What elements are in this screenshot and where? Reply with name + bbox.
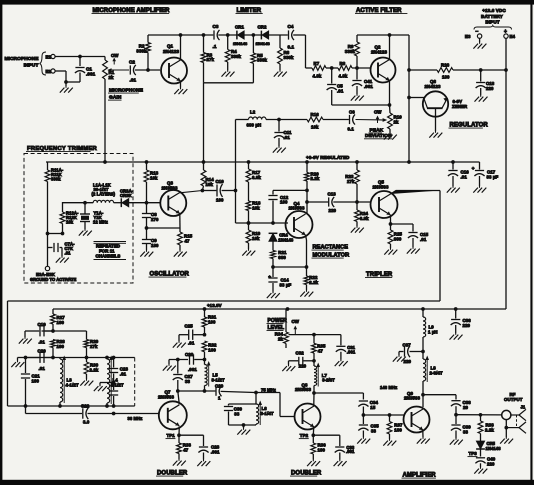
wire Q1 emitter to ground: [174, 81, 187, 94]
svg-text:100: 100: [57, 320, 65, 325]
wire J1 ground: [500, 420, 513, 444]
node C41: [355, 66, 359, 70]
capacitor C23 .01: [109, 358, 129, 383]
svg-text:33: 33: [371, 428, 377, 433]
capacitor C20 .01: [18, 348, 54, 371]
wire Q3 collector: [180, 191, 203, 193]
svg-text:OUTPUT: OUTPUT: [504, 397, 523, 402]
svg-text:36 MHz: 36 MHz: [128, 416, 143, 421]
svg-text:2N4123: 2N4123: [163, 49, 179, 54]
ground C28: [197, 460, 210, 467]
terminal E1: [46, 54, 56, 59]
svg-text:33 µF: 33 µF: [487, 175, 499, 180]
svg-text:TP1: TP1: [167, 433, 176, 438]
svg-text:27k: 27k: [90, 344, 98, 349]
svg-text:CR1: CR1: [235, 25, 244, 30]
svg-text:.001: .001: [364, 84, 373, 89]
svg-text:27k: 27k: [347, 179, 355, 184]
ground R19: [242, 249, 255, 256]
svg-text:LIMITER: LIMITER: [237, 8, 262, 14]
resistor R17 6.8k: [246, 162, 261, 201]
section title ACTIVE FILTER: [355, 8, 407, 14]
resistor R38 2.2k: [478, 415, 494, 437]
svg-text:680 µH: 680 µH: [247, 123, 262, 128]
svg-text:2.2k: 2.2k: [90, 367, 99, 372]
svg-text:2-3/4T: 2-3/4T: [430, 370, 443, 375]
svg-text:C19: C19: [38, 322, 47, 327]
ground C14: [267, 292, 280, 299]
potentiometer R34 2k: [275, 309, 289, 348]
svg-text:C29: C29: [215, 384, 224, 389]
node C5: [330, 66, 334, 70]
crystal Y1A-Y1K 12 MHz: [80, 202, 108, 229]
svg-text:3-1/4T: 3-1/4T: [261, 411, 274, 416]
section title DOUBLER (second): [290, 471, 322, 477]
svg-text:100: 100: [216, 198, 224, 203]
svg-text:6.8k: 6.8k: [360, 216, 369, 221]
ground R15: [174, 250, 187, 257]
section title AMPLIFIER: [402, 473, 437, 479]
ground C39: [450, 438, 463, 445]
ground C40: [474, 467, 487, 474]
resistor R14 10k: [201, 162, 214, 191]
svg-text:100: 100: [318, 448, 326, 453]
inductor L6 3-1/4T: [256, 401, 274, 426]
capacitor C12 100: [268, 190, 288, 223]
resistor R19 10k: [246, 223, 261, 249]
svg-text:C32: C32: [296, 351, 305, 356]
resistor R21 680: [271, 250, 287, 269]
wire regulated rail 6-9V: [46, 155, 480, 164]
diode CR2 1N4148: [256, 25, 271, 46]
svg-text:.001: .001: [346, 449, 355, 454]
svg-text:4.8k: 4.8k: [313, 74, 322, 79]
resistor R37 180: [387, 415, 403, 439]
svg-text:.01: .01: [461, 175, 468, 180]
wire E2/ground net: [55, 71, 80, 86]
svg-text:REACTANCE: REACTANCE: [313, 245, 349, 251]
svg-text:MODULATOR: MODULATOR: [313, 253, 350, 259]
diode CR4 1N4148 varactor: [269, 233, 294, 251]
capacitor C34 15: [358, 393, 378, 415]
capacitor C15 .01: [391, 224, 429, 247]
svg-text:75 MHz: 75 MHz: [261, 387, 276, 392]
transistor Q6 2N4123 zener regulator: [423, 79, 448, 117]
ground C37: [393, 355, 406, 362]
capacitor C5 .01: [327, 68, 344, 105]
ground C23 branch: [94, 381, 116, 391]
capacitor C1 .001: [75, 57, 96, 83]
svg-text:2N4123: 2N4123: [425, 84, 441, 89]
resistor R27 100: [51, 309, 66, 331]
svg-text:2k: 2k: [394, 119, 400, 124]
wire R34 wiper node: [289, 333, 341, 346]
svg-text:680: 680: [394, 236, 402, 241]
svg-text:10k: 10k: [66, 220, 74, 225]
section title REGULATOR: [449, 123, 489, 129]
svg-text:INPUT: INPUT: [485, 20, 499, 25]
section title FREQUENCY TRIMMER: [26, 146, 98, 152]
ground mic input: [60, 86, 73, 93]
svg-text:MICROPHONE: MICROPHONE: [109, 88, 144, 94]
svg-text:POWER: POWER: [268, 318, 288, 324]
resistor R23 27k: [345, 162, 359, 202]
svg-text:TP3: TP3: [469, 451, 478, 456]
svg-text:C20: C20: [38, 348, 47, 353]
capacitor C35 33: [358, 415, 379, 437]
ground C36: [450, 333, 463, 340]
svg-text:2.2k: 2.2k: [485, 427, 494, 432]
capacitor C17 33 uF: [472, 162, 499, 186]
label CW with arrow (R1): [111, 53, 119, 65]
wire 75 MHz line: [254, 387, 294, 416]
wire Q1 collector: [179, 33, 183, 60]
svg-text:180: 180: [394, 427, 402, 432]
svg-text:.01: .01: [120, 371, 127, 376]
section title TRIPLER: [365, 272, 393, 278]
wire limiter bottom: [204, 83, 254, 162]
svg-text:330k: 330k: [257, 58, 268, 63]
capacitor C27 33: [173, 360, 194, 392]
wire Q5 emitter: [389, 215, 393, 226]
svg-text:2N3563: 2N3563: [295, 387, 311, 392]
wire E1 to R1: [55, 55, 105, 59]
svg-text:+13.6 VDC: +13.6 VDC: [482, 8, 506, 13]
ground C32: [282, 365, 295, 372]
svg-text:.01: .01: [39, 340, 46, 345]
label CW with arrow (R10): [374, 110, 382, 124]
terminal E4: [504, 29, 516, 39]
node R31/C25: [203, 333, 207, 337]
svg-text:2N3563: 2N3563: [289, 206, 305, 211]
svg-text:47: 47: [185, 238, 191, 243]
wire oscillator emitter net: [145, 226, 180, 230]
antenna symbol: [506, 409, 526, 433]
wire L2 to varactor node: [236, 120, 289, 225]
node Q3 collector: [201, 189, 205, 193]
svg-text:.01: .01: [188, 341, 195, 346]
note REPEATED FOR 11 CHANNELS: [94, 242, 127, 260]
resistor R5 330k: [251, 35, 268, 83]
capacitor C22 3.0: [81, 404, 90, 425]
svg-text:2N3563: 2N3563: [158, 394, 174, 399]
svg-text:1N4148: 1N4148: [233, 41, 248, 46]
svg-text:10k: 10k: [311, 125, 319, 130]
svg-text:L2: L2: [250, 110, 256, 115]
svg-text:1N4148: 1N4148: [256, 41, 271, 46]
capacitor C3 .1: [213, 24, 220, 49]
svg-text:AMPLIFIER: AMPLIFIER: [403, 473, 437, 479]
capacitor C13 220: [307, 192, 371, 214]
section title OSCILLATOR: [149, 272, 190, 278]
label PEAK DEVIATION: [364, 127, 392, 139]
svg-text:146 MHz: 146 MHz: [380, 385, 397, 390]
svg-text:.001: .001: [211, 450, 220, 455]
transistor Q7 2N3563: [158, 390, 187, 430]
wire Q6 base: [407, 96, 424, 100]
ground C11: [273, 146, 286, 153]
svg-text:(2 LAYERS): (2 LAYERS): [92, 192, 116, 197]
svg-text:E4: E4: [510, 34, 516, 39]
wire doubler tank top node: [24, 356, 135, 360]
connector J1: [502, 410, 511, 419]
resistor R6 330k: [278, 35, 294, 70]
resistor R9 330k: [345, 35, 359, 68]
capacitor C29 1: [215, 384, 256, 401]
capacitor C37 220: [399, 343, 425, 365]
resistor R4 330k: [225, 35, 241, 70]
resistor R35 47: [312, 335, 326, 361]
inductor L1A-L1K 30-1/2T: [92, 183, 116, 203]
capacitor C41 .001: [352, 68, 373, 94]
ground C16: [447, 186, 460, 193]
label TP1: [166, 433, 176, 439]
wire Q7 collector lead: [178, 391, 180, 404]
svg-text:220: 220: [404, 359, 412, 364]
resistor R20 2.2k: [305, 162, 320, 214]
ground C15: [407, 247, 420, 254]
svg-text:C6: C6: [349, 110, 355, 115]
svg-text:3.0: 3.0: [83, 420, 90, 425]
resistor R25 680: [388, 224, 402, 248]
svg-text:Q1: Q1: [167, 44, 174, 49]
wire R27 node: [42, 329, 87, 339]
svg-text:47: 47: [318, 348, 324, 353]
terminal E3: [465, 29, 482, 42]
label MICROPHONE GAIN: [108, 88, 144, 101]
svg-text:C22: C22: [81, 404, 90, 409]
resistor R28 100: [51, 339, 66, 358]
svg-text:2.2k: 2.2k: [311, 176, 320, 181]
capacitor C38 20: [451, 395, 471, 415]
label CW with arrow (R34): [292, 319, 300, 335]
svg-text:+: +: [472, 166, 475, 171]
svg-text:.01: .01: [420, 237, 427, 242]
resistor R8 4.8k: [332, 61, 371, 79]
svg-text:2N3563: 2N3563: [404, 396, 420, 401]
inductor L4 4-1/2T: [107, 356, 124, 407]
capacitor C30 33: [224, 393, 256, 426]
svg-text:2N4123: 2N4123: [371, 49, 387, 54]
inductor L7 3-2/6T: [314, 361, 335, 393]
svg-text:.001: .001: [347, 349, 356, 354]
svg-text:REGULATOR: REGULATOR: [450, 123, 489, 129]
capacitor C7A-C7K .01: [48, 242, 76, 257]
svg-text:J1: J1: [521, 405, 526, 410]
capacitor C31 .001: [336, 345, 356, 359]
svg-text:R8: R8: [340, 61, 346, 66]
resistor R31 100: [202, 309, 217, 335]
svg-text:3-1/2T: 3-1/2T: [212, 377, 225, 382]
wire R10 wiper from C6: [356, 118, 388, 122]
svg-text:2N3563: 2N3563: [162, 186, 178, 191]
svg-text:CHANNELS: CHANNELS: [96, 254, 121, 259]
inductor L2 680 uH: [236, 110, 267, 128]
ground C9: [140, 250, 153, 257]
svg-text:CW: CW: [374, 110, 382, 115]
section title DOUBLER (first): [156, 471, 188, 477]
svg-text:33: 33: [234, 411, 240, 416]
svg-text:20: 20: [463, 405, 469, 410]
transistor Q1 2N4123: [161, 44, 187, 84]
capacitor C26 .001: [169, 352, 205, 372]
svg-text:100: 100: [32, 378, 40, 383]
ground C20: [11, 361, 24, 368]
ground C41: [351, 94, 364, 101]
svg-text:ACTIVE FILTER: ACTIVE FILTER: [356, 8, 402, 14]
svg-text:INPUT: INPUT: [24, 63, 39, 69]
capacitor C2 .01: [129, 60, 160, 83]
resistor R18 10k: [246, 201, 261, 224]
capacitor C9 180: [142, 228, 159, 250]
potentiometer R10 2k: [388, 113, 403, 133]
wire Q8 emitter: [311, 428, 315, 437]
capacitor C40 220: [475, 457, 495, 468]
wire doubler tank bottom: [8, 404, 135, 408]
ground R22: [300, 290, 313, 297]
svg-text:CW: CW: [292, 319, 300, 324]
svg-text:CR2: CR2: [258, 25, 267, 30]
wire tripler output route: [8, 301, 441, 406]
svg-text:DOUBLER: DOUBLER: [291, 471, 322, 477]
svg-text:330k: 330k: [345, 49, 356, 54]
capacitor C11 .01: [274, 120, 292, 147]
label 6-9V ZENER: [452, 99, 468, 109]
svg-text:220: 220: [329, 208, 337, 213]
capacitor C24: [109, 383, 118, 407]
resistor R12A-R12K 10k: [60, 202, 79, 234]
resistor R22 2.2k: [304, 267, 319, 290]
ground Y1: [79, 229, 92, 236]
svg-text:GROUND TO ACTIVATE: GROUND TO ACTIVATE: [30, 277, 77, 282]
svg-text:330k: 330k: [51, 177, 61, 182]
svg-text:100: 100: [208, 347, 216, 352]
wire Q9 collector node: [421, 393, 456, 407]
ground C35: [357, 437, 370, 444]
diode CR5 1N4148: [476, 437, 501, 457]
svg-text:220: 220: [486, 86, 494, 91]
svg-text:GAIN: GAIN: [109, 95, 122, 101]
wire RF output line: [454, 413, 502, 417]
shield dashed link: [134, 358, 136, 407]
wire Q6 emitter to ground: [429, 108, 442, 137]
svg-text:.001: .001: [188, 367, 197, 372]
svg-text:12 MHz: 12 MHz: [93, 220, 108, 225]
resistor R3 27k: [201, 35, 214, 83]
capacitor C18 220: [476, 70, 495, 95]
wire top rail limiter: [148, 33, 306, 68]
capacitor C6 0.1: [348, 110, 356, 132]
ground E3: [473, 42, 486, 49]
capacitor C21 100: [21, 358, 40, 407]
svg-text:180: 180: [151, 243, 159, 248]
svg-text:4.8k: 4.8k: [339, 74, 348, 79]
svg-text:CW: CW: [111, 53, 119, 58]
ground R33: [173, 459, 186, 466]
capacitor C33 .001: [313, 435, 355, 459]
svg-text:DEVIATION: DEVIATION: [365, 133, 392, 139]
svg-text:OSCILLATOR: OSCILLATOR: [150, 272, 190, 278]
ground C25: [173, 341, 186, 348]
wire 36 MHz line: [26, 406, 160, 421]
svg-text:33 µF: 33 µF: [280, 282, 292, 287]
wire top rail active filter: [357, 33, 409, 163]
ground doubler tank: [237, 428, 250, 435]
ground C7: [56, 256, 69, 263]
resistor R16 10k: [266, 112, 349, 130]
wire Q1 base node: [146, 68, 150, 72]
wire Q8 collector node: [312, 385, 397, 405]
svg-text:6.8k: 6.8k: [252, 175, 261, 180]
section title LIMITER: [236, 8, 263, 14]
inductor L8 2-3/4T: [423, 352, 443, 395]
resistor R33 47: [177, 435, 192, 459]
svg-text:3-2/6T: 3-2/6T: [322, 377, 335, 382]
svg-text:2k: 2k: [109, 75, 115, 80]
resistor R15 47: [178, 228, 193, 250]
svg-text:100: 100: [208, 319, 216, 324]
ground C26: [163, 364, 176, 371]
svg-text:10k: 10k: [206, 182, 214, 187]
capacitor C28 .001: [179, 435, 220, 459]
capacitor C19 .01: [25, 322, 53, 345]
wire Q9 emitter to ground: [417, 431, 430, 444]
svg-text:15: 15: [370, 405, 376, 410]
capacitor C39 33: [451, 415, 471, 438]
svg-text:33: 33: [185, 379, 191, 384]
capacitor C32 220: [289, 351, 315, 369]
transistor Q4 2N3563: [286, 201, 313, 238]
capacitor C14 33 uF: [268, 267, 291, 292]
wire Q5 collector to output loop: [391, 191, 441, 302]
section title REACTANCE MODULATOR: [312, 245, 350, 259]
node R18/R19: [247, 221, 251, 225]
wire E4 battery feed: [504, 38, 508, 309]
svg-text:680: 680: [278, 255, 286, 260]
svg-text:180: 180: [442, 75, 450, 80]
svg-text:.01: .01: [284, 135, 291, 140]
wire Q4 emitter: [306, 235, 307, 267]
svg-text:330k: 330k: [284, 55, 295, 60]
capacitor C25 .01: [179, 324, 205, 346]
ground R36: [307, 460, 320, 467]
transistor Q2 2N4123: [371, 45, 396, 83]
svg-text:.01: .01: [337, 88, 344, 93]
label POWER LEVEL: [267, 318, 288, 331]
svg-text:100: 100: [280, 200, 288, 205]
svg-text:1N4148: 1N4148: [486, 446, 502, 451]
transistor Q5 2N3563: [371, 180, 398, 219]
svg-text:10k: 10k: [252, 205, 260, 210]
svg-text:.01: .01: [130, 78, 137, 83]
svg-text:TRIPLER: TRIPLER: [366, 272, 393, 278]
svg-text:CR3K: CR3K: [120, 193, 132, 198]
svg-text:220: 220: [463, 323, 471, 328]
svg-text:MICROPHONE: MICROPHONE: [4, 56, 39, 62]
svg-text:10k: 10k: [150, 175, 158, 180]
node Q4 collector / C13: [305, 200, 309, 204]
wire R21 to R22: [273, 265, 308, 269]
svg-text:220: 220: [487, 461, 495, 466]
inductor L3 4-1/2T: [60, 356, 79, 407]
svg-text:BATTERY: BATTERY: [481, 14, 503, 19]
inductor L9 1 uH: [423, 309, 438, 352]
wire Q2 emitter / C5 return: [332, 81, 392, 114]
ground R25: [384, 248, 397, 255]
svg-text:2k: 2k: [278, 337, 284, 342]
svg-text:0.1: 0.1: [288, 45, 295, 50]
ground R10: [384, 133, 397, 140]
